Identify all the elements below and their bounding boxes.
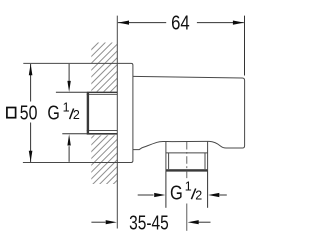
inlet G1/2 dimension lines [56,64,87,162]
dim 35-45 [91,221,210,223]
dim 64 arrows [118,21,129,25]
wall surface line [116,16,118,229]
inlet nipple (threaded, behind wall) [87,92,118,134]
centerline of outlet [186,142,188,179]
svg-text:G: G [47,102,59,124]
body outline [133,76,245,149]
escutcheon plate [23,63,133,162]
outlet G1/2 dimension lines [138,172,227,208]
svg-text:64: 64 [171,13,190,35]
svg-text:2: 2 [73,108,80,122]
svg-text:1: 1 [185,180,192,194]
svg-text:2: 2 [195,188,202,202]
svg-text:G: G [170,182,183,204]
inlet nipple white mask over hatch [86,92,117,136]
dim sq50 lines [30,64,32,162]
dim sq50 arrows [29,64,33,75]
svg-text:50: 50 [20,102,38,124]
outlet nipple [166,141,208,171]
square symbol [7,108,16,118]
wall hatch [78,11,130,240]
dim 64 lines [118,16,245,76]
svg-text:1: 1 [63,101,70,115]
svg-text:35-45: 35-45 [129,212,169,234]
